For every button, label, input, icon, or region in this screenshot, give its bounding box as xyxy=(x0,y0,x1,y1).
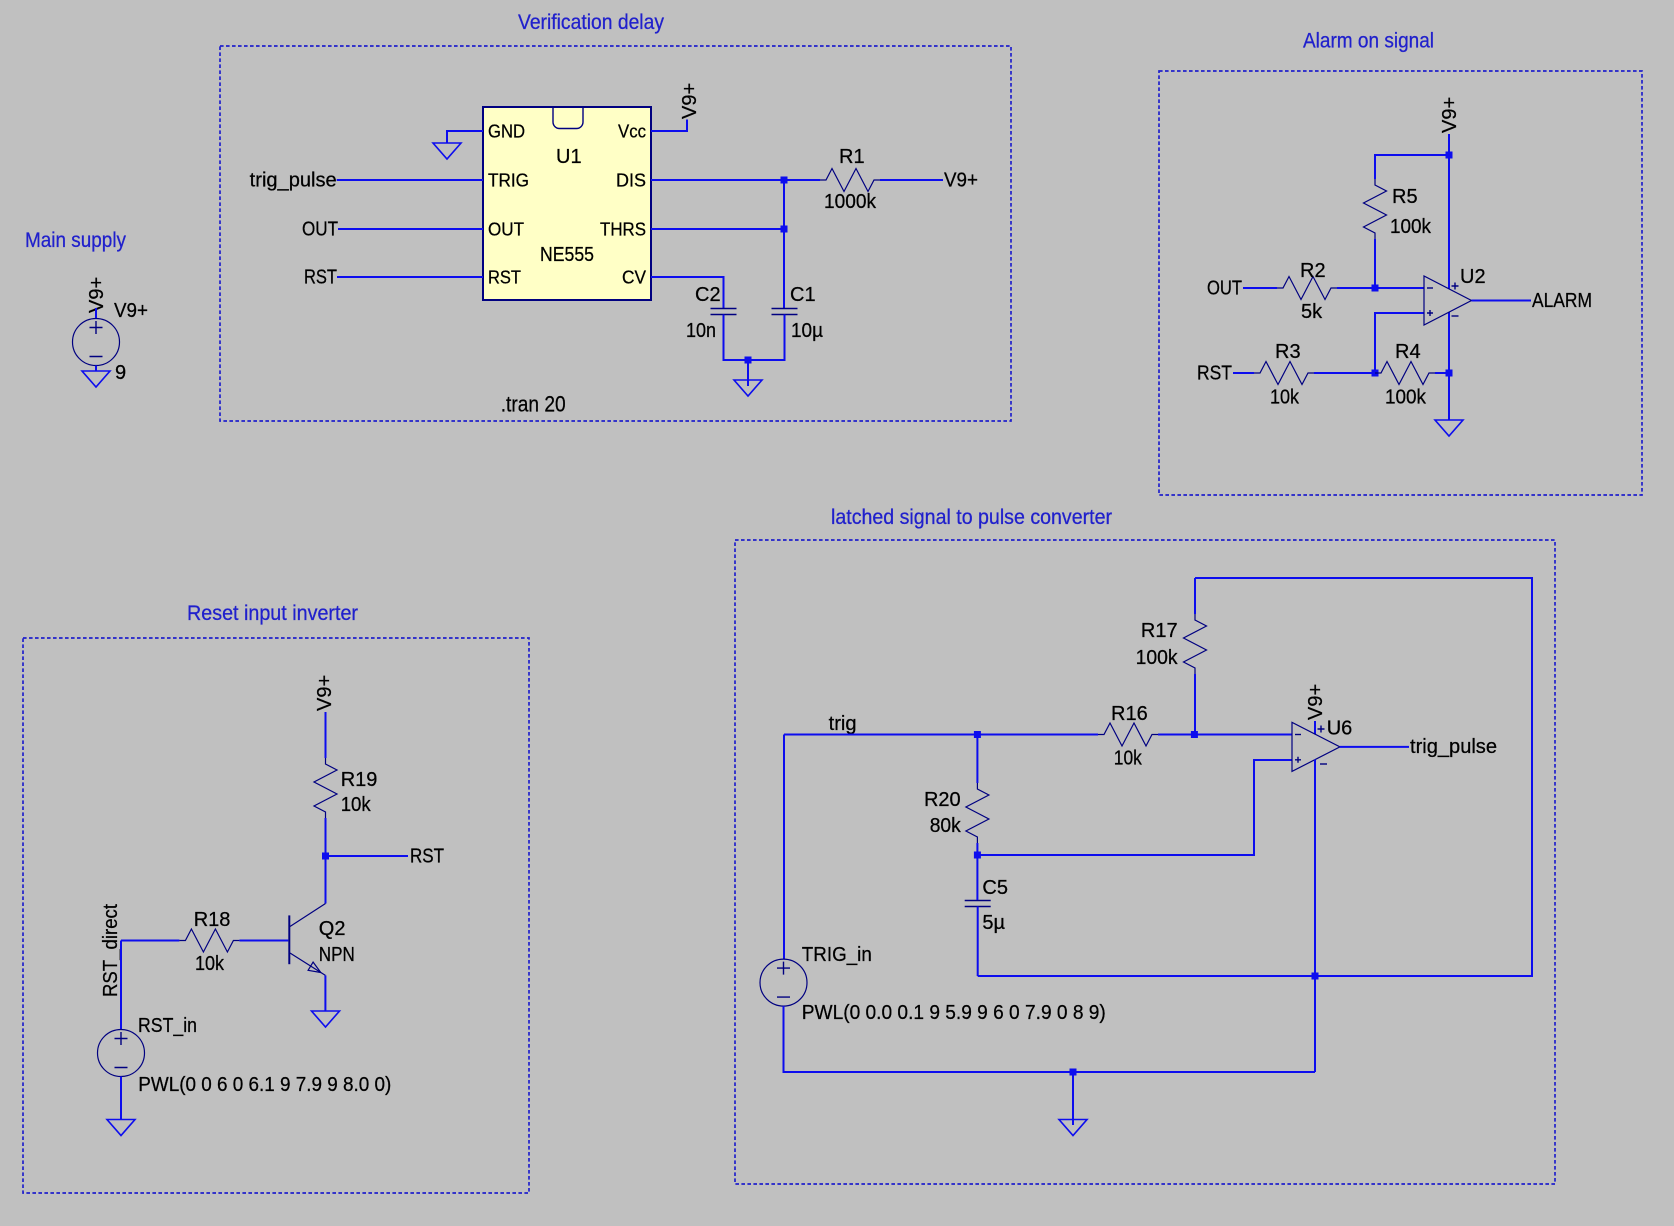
svg-text:R1: R1 xyxy=(839,146,865,168)
wire GND pin to ground xyxy=(447,131,483,143)
svg-text:100k: 100k xyxy=(1385,387,1427,409)
node junction THRS xyxy=(781,226,788,233)
svg-text:RST: RST xyxy=(410,846,444,868)
svg-text:10k: 10k xyxy=(195,953,225,975)
node junction R4/U2 V- supply/ground xyxy=(1446,370,1453,377)
node trig_pulse (TRIG input) xyxy=(250,170,337,192)
resistor R4 xyxy=(1375,341,1435,409)
wire DIS to R1 xyxy=(651,179,820,181)
wire R18 to Q2 base xyxy=(239,940,288,942)
svg-text:R20: R20 xyxy=(924,789,961,811)
wire V9+ to R19 xyxy=(325,712,327,758)
section box: latched signal to pulse converter xyxy=(735,506,1555,1184)
ground (main supply) xyxy=(82,371,110,387)
node junction R3/R4/U2 noninverting xyxy=(1372,370,1379,377)
svg-text:80k: 80k xyxy=(930,815,962,837)
wire THRS to junction xyxy=(651,228,784,230)
wire U6 V- supply down to junction xyxy=(1314,760,1316,977)
value label PWL of RST_in xyxy=(138,1074,391,1096)
wire RST_direct to R18 xyxy=(121,940,179,942)
wire RST to U1 xyxy=(337,276,483,278)
svg-text:R2: R2 xyxy=(1300,260,1326,282)
svg-text:V9+: V9+ xyxy=(314,675,336,711)
wire trig junction down to R20 xyxy=(976,735,978,784)
capacitor C1 xyxy=(772,284,824,342)
svg-text:trig_pulse: trig_pulse xyxy=(250,170,337,192)
op-amp U1 NE555 timer IC body xyxy=(483,107,651,300)
svg-text:10n: 10n xyxy=(686,320,716,342)
wire C5 bottom to loop wire xyxy=(977,907,979,977)
svg-text:10k: 10k xyxy=(1270,387,1300,409)
node junction R16/R17/U6 input xyxy=(1191,731,1198,738)
svg-text:10k: 10k xyxy=(341,794,372,816)
svg-text:V9+: V9+ xyxy=(944,170,978,192)
pin DIS of U1 xyxy=(616,171,646,191)
node junction trig/R20 xyxy=(974,731,981,738)
svg-text:5µ: 5µ xyxy=(982,912,1005,934)
voltage source RST_in xyxy=(98,1015,198,1077)
wire U6 output to trig_pulse xyxy=(1340,746,1409,748)
title: Main supply xyxy=(25,229,126,252)
svg-text:RST_direct: RST_direct xyxy=(100,904,122,997)
svg-text:RST: RST xyxy=(488,268,521,288)
transistor Q2 NPN xyxy=(289,904,355,976)
pin Vcc of U1 xyxy=(618,122,646,142)
net flag V9+ (right of R1) xyxy=(944,170,978,192)
svg-text:U1: U1 xyxy=(556,146,582,168)
node RST (to U1) xyxy=(304,267,337,289)
svg-text:1000k: 1000k xyxy=(824,191,877,213)
wire top to R17 xyxy=(1194,578,1196,614)
node junction bottom rail ground xyxy=(1070,1069,1077,1076)
svg-text:9: 9 xyxy=(115,362,126,384)
wire R3 to junction xyxy=(1314,372,1375,374)
svg-text:R18: R18 xyxy=(194,909,231,931)
svg-text:R4: R4 xyxy=(1395,341,1421,363)
node junction DIS/R1/C1 branch xyxy=(781,177,788,184)
wire RST_direct down to RST_in source xyxy=(120,941,122,1030)
pin TRIG of U1 xyxy=(488,171,529,191)
svg-text:5k: 5k xyxy=(1301,301,1323,323)
svg-text:NE555: NE555 xyxy=(540,244,594,266)
wire R2 to junction xyxy=(1337,287,1375,289)
ground (U1 GND) xyxy=(433,143,461,159)
svg-text:R3: R3 xyxy=(1275,341,1301,363)
svg-text:R16: R16 xyxy=(1111,703,1148,725)
svg-text:CV: CV xyxy=(622,268,646,288)
wire junction to C5 top xyxy=(976,855,978,900)
svg-text:PWL(0 0 6 0 6.1 9 7.9 9 8.0 0): PWL(0 0 6 0 6.1 9 7.9 9 8.0 0) xyxy=(138,1074,391,1096)
svg-text:Main supply: Main supply xyxy=(25,229,126,252)
pin OUT of U1 xyxy=(488,220,524,240)
wire trig down left side to TRIG_in xyxy=(783,735,785,960)
resistor R19 xyxy=(314,758,377,818)
wire V9+ rail to R5 top xyxy=(1375,155,1449,179)
wire RST_in to ground xyxy=(120,1077,122,1120)
voltage source TRIG_in xyxy=(760,944,872,1006)
node OUT (to U1) xyxy=(302,219,338,241)
svg-text:Alarm on signal: Alarm on signal xyxy=(1303,30,1434,53)
svg-text:Reset input inverter: Reset input inverter xyxy=(187,602,358,625)
svg-text:R17: R17 xyxy=(1141,620,1178,642)
node RST (output) xyxy=(410,846,444,868)
wire junction to U6 noninverting input xyxy=(977,760,1292,855)
net flag V9+ (U1 Vcc) xyxy=(679,83,701,119)
svg-text:RST: RST xyxy=(1197,363,1232,385)
wire V9+ to U6 V+ supply xyxy=(1314,721,1316,735)
svg-text:NPN: NPN xyxy=(319,944,355,966)
node RST (alarm input) xyxy=(1197,363,1232,385)
wire R1 to V9+ flag xyxy=(880,179,943,181)
capacitor C5 xyxy=(965,877,1008,934)
wire R20 to C5 junction xyxy=(976,843,978,855)
node junction R20/C5/U6 noninverting xyxy=(974,852,981,859)
wire R19 to Q2 collector xyxy=(325,818,327,904)
wire OUT to U1 xyxy=(338,228,483,230)
wire trig_pulse to TRIG xyxy=(337,179,483,181)
section box: Alarm on signal xyxy=(1159,30,1642,496)
svg-text:U2: U2 xyxy=(1460,266,1486,288)
wire Vcc to V9+ flag xyxy=(651,120,687,132)
net flag V9+ (U6 supply) xyxy=(1305,684,1327,720)
value label PWL of TRIG_in xyxy=(802,1002,1106,1024)
node trig xyxy=(829,713,857,735)
wire trig to R16 xyxy=(784,734,1098,736)
net flag V9+ (alarm) xyxy=(1439,97,1461,133)
svg-text:DIS: DIS xyxy=(616,171,646,191)
ground (C1 C2) xyxy=(734,380,762,396)
svg-text:Verification delay: Verification delay xyxy=(518,11,664,34)
node junction RST output xyxy=(322,853,329,860)
spice directive .tran 20 xyxy=(501,392,566,417)
svg-text:10k: 10k xyxy=(1114,748,1143,770)
svg-text:V9+: V9+ xyxy=(114,300,148,322)
svg-text:100k: 100k xyxy=(1136,647,1179,669)
section box: Reset input inverter xyxy=(23,602,529,1193)
svg-text:Q2: Q2 xyxy=(319,918,346,940)
svg-text:C2: C2 xyxy=(695,284,721,306)
svg-text:C1: C1 xyxy=(790,284,816,306)
svg-text:R5: R5 xyxy=(1392,186,1418,208)
svg-text:TRIG: TRIG xyxy=(488,171,529,191)
svg-text:OUT: OUT xyxy=(1207,278,1242,300)
node junction U6 V-/loop/ground branch xyxy=(1312,973,1319,980)
wire junction to U2 inverting input xyxy=(1375,287,1424,289)
resistor R2 xyxy=(1277,260,1337,323)
ground (Q2 emitter) xyxy=(312,1011,340,1027)
node trig_pulse (U6 output) xyxy=(1410,736,1497,758)
svg-text:ALARM: ALARM xyxy=(1532,290,1592,312)
resistor R3 xyxy=(1254,341,1314,409)
wire xyxy=(95,366,97,372)
node ALARM output xyxy=(1532,290,1592,312)
net flag V9+ (main supply top) xyxy=(86,277,108,313)
pin GND of U1 xyxy=(488,122,525,142)
resistor R16 xyxy=(1098,703,1158,770)
wire Q2 emitter to ground xyxy=(324,975,326,1011)
svg-text:GND: GND xyxy=(488,122,525,142)
wire OUT to R2 xyxy=(1243,287,1277,289)
wire junction to ground xyxy=(747,360,749,386)
wire junction to RST label xyxy=(326,855,409,857)
svg-text:Vcc: Vcc xyxy=(618,122,646,142)
op-amp U2 xyxy=(1424,266,1486,325)
svg-text:RST: RST xyxy=(304,267,337,289)
wire R5 bottom to junction xyxy=(1374,239,1376,288)
svg-text:THRS: THRS xyxy=(600,220,646,240)
wire R17 to R16 junction xyxy=(1194,674,1196,735)
ground (alarm) xyxy=(1435,420,1463,436)
ground (latched converter) xyxy=(1059,1120,1087,1136)
svg-text:R19: R19 xyxy=(341,769,378,791)
node junction capacitors to ground xyxy=(745,357,752,364)
wire R4 to ground rail xyxy=(1435,372,1449,374)
resistor R1 xyxy=(820,146,880,213)
wire RST to R3 xyxy=(1233,372,1254,374)
wire U2 output to ALARM xyxy=(1472,300,1532,302)
wire V9+ down to opamp U2 V+ supply xyxy=(1448,134,1450,289)
svg-text:trig: trig xyxy=(829,713,857,735)
node OUT (alarm input) xyxy=(1207,278,1242,300)
pin THRS of U1 xyxy=(600,220,646,240)
pin CV of U1 xyxy=(622,268,646,288)
net flag V9+ (reset) xyxy=(314,675,336,711)
voltage source V9+ (main supply) xyxy=(73,300,149,384)
svg-text:OUT: OUT xyxy=(302,219,338,241)
svg-text:trig_pulse: trig_pulse xyxy=(1410,736,1497,758)
resistor R5 xyxy=(1364,179,1432,239)
wire feedback loop top and right side xyxy=(978,578,1532,976)
node junction R2/R5/U2 inverting input xyxy=(1372,285,1379,292)
svg-text:RST_in: RST_in xyxy=(138,1015,197,1037)
ground (RST_in) xyxy=(107,1120,135,1136)
svg-text:.tran 20: .tran 20 xyxy=(501,392,566,417)
capacitor C2 xyxy=(686,284,737,342)
svg-text:100k: 100k xyxy=(1390,216,1432,238)
wire U2 noninverting input to R3/R4 junction xyxy=(1375,313,1424,373)
svg-text:C5: C5 xyxy=(982,877,1008,899)
pin RST of U1 xyxy=(488,268,521,288)
wire xyxy=(95,308,97,319)
resistor R18 xyxy=(179,909,239,975)
svg-text:V9+: V9+ xyxy=(1439,97,1461,133)
op-amp U6 xyxy=(1292,718,1352,772)
wire R16 to U6 inverting input xyxy=(1158,734,1292,736)
node RST_direct xyxy=(100,904,122,997)
wire DIS junction down to THRS junction and C1 xyxy=(783,180,785,308)
resistor R20 xyxy=(924,783,989,843)
svg-text:10µ: 10µ xyxy=(791,320,823,342)
wire CV to C2 xyxy=(651,277,724,308)
svg-text:V9+: V9+ xyxy=(679,83,701,119)
wire U2 V- supply down to ground junction xyxy=(1448,312,1450,373)
section box: Verification delay xyxy=(220,11,1011,421)
svg-text:OUT: OUT xyxy=(488,220,524,240)
wire junction to ground xyxy=(1072,1072,1074,1125)
svg-text:latched signal to pulse conver: latched signal to pulse converter xyxy=(831,506,1112,529)
wire C2 bottom to ground junction xyxy=(724,315,785,361)
wire junction to ground xyxy=(1448,373,1450,420)
wire junction down to bottom rail xyxy=(1314,976,1316,1072)
svg-text:V9+: V9+ xyxy=(1305,684,1327,720)
svg-text:V9+: V9+ xyxy=(86,277,108,313)
wire TRIG_in to bottom rail xyxy=(784,1006,1316,1072)
resistor R17 xyxy=(1136,614,1207,674)
svg-text:U6: U6 xyxy=(1327,718,1353,740)
svg-text:TRIG_in: TRIG_in xyxy=(802,944,872,966)
svg-text:PWL(0 0.0 0.1 9 5.9 9 6 0 7.9: PWL(0 0.0 0.1 9 5.9 9 6 0 7.9 0 8 9) xyxy=(802,1002,1106,1024)
node junction V9+ rail xyxy=(1446,152,1453,159)
